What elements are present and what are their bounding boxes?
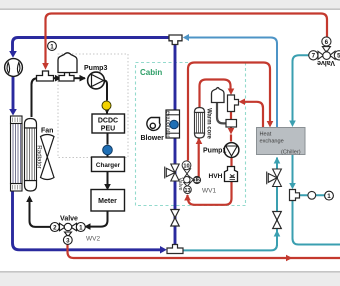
- svg-text:Pump1: Pump1: [203, 148, 226, 155]
- svg-text:Cabin: Cabin: [140, 68, 162, 77]
- svg-text:WV1: WV1: [202, 188, 216, 195]
- svg-text:6: 6: [325, 39, 329, 46]
- svg-text:Warm core: Warm core: [206, 108, 212, 139]
- svg-text:13: 13: [185, 188, 191, 194]
- svg-text:1: 1: [50, 43, 54, 50]
- svg-text:DCDC: DCDC: [98, 118, 118, 125]
- svg-text:1: 1: [327, 193, 331, 200]
- svg-text:7: 7: [312, 53, 316, 60]
- svg-text:Valve: Valve: [60, 216, 78, 223]
- svg-text:Meter: Meter: [98, 198, 117, 205]
- svg-text:(Chiller): (Chiller): [281, 150, 301, 156]
- svg-text:3: 3: [66, 237, 70, 244]
- svg-text:Radiator: Radiator: [36, 145, 43, 168]
- svg-text:Blower: Blower: [141, 135, 165, 142]
- svg-text:Charger: Charger: [96, 162, 121, 169]
- svg-text:1: 1: [79, 224, 83, 231]
- svg-text:2: 2: [53, 224, 57, 231]
- svg-text:Pump3: Pump3: [84, 65, 107, 72]
- svg-text:evaporator: evaporator: [165, 111, 171, 138]
- svg-text:Heat: Heat: [260, 132, 272, 138]
- svg-text:10: 10: [183, 164, 189, 170]
- svg-text:WV2: WV2: [86, 236, 100, 243]
- svg-text:exchange: exchange: [260, 139, 284, 145]
- svg-text:PEU: PEU: [101, 126, 115, 133]
- svg-text:12: 12: [194, 178, 200, 184]
- svg-text:Valve: Valve: [177, 177, 183, 190]
- svg-text:Valve: Valve: [317, 59, 335, 66]
- svg-text:Fan: Fan: [41, 128, 53, 135]
- svg-text:HVH: HVH: [209, 173, 223, 180]
